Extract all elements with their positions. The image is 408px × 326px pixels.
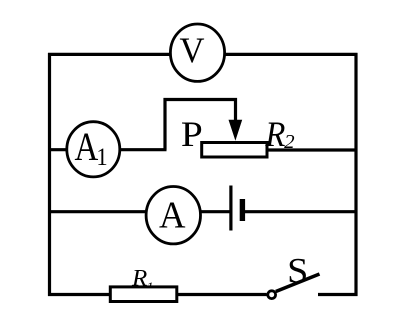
svg-text:S: S [287,251,308,291]
svg-text:R: R [264,114,285,154]
svg-text:V: V [180,30,205,70]
svg-text:2: 2 [284,131,295,153]
svg-text:A: A [75,125,99,169]
svg-text:P: P [181,114,203,154]
svg-text:1: 1 [96,142,107,171]
svg-text:A: A [159,194,186,236]
